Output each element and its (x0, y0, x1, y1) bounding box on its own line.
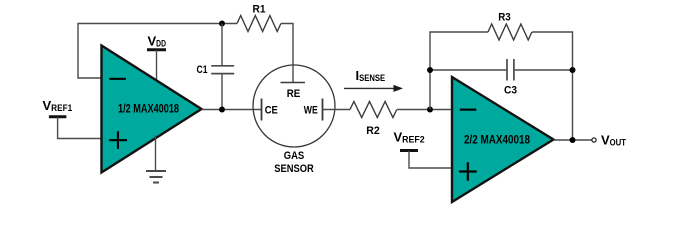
ISENSE arrow (344, 87, 394, 89)
op-amp U1 1/2 MAX40018 (102, 46, 202, 173)
capacitor C1 (221, 24, 223, 66)
capacitor C3 (430, 69, 506, 71)
svg-text:2/2 MAX40018: 2/2 MAX40018 (464, 134, 531, 146)
wire: VREF1 to U1 + input (58, 117, 102, 139)
resistor R1 (237, 16, 281, 32)
node: U2 inverting input junction (427, 107, 433, 113)
wire: R2 to U2 inverting input (397, 109, 452, 111)
svg-text:CE: CE (265, 105, 278, 117)
svg-text:C1: C1 (197, 64, 208, 76)
op-amp U2 2/2 MAX40018 (452, 77, 554, 202)
svg-text:SENSOR: SENSOR (274, 163, 314, 175)
gas sensor body (253, 65, 335, 147)
wire: U2 output (554, 139, 592, 141)
node: U1 output / C1 junction (219, 107, 225, 113)
svg-text:GAS: GAS (284, 150, 305, 162)
wire: VDD to U1 top (156, 50, 158, 82)
terminal: VOUT open circle (592, 138, 596, 142)
wire: feedback left riser (430, 32, 488, 110)
svg-text:R3: R3 (498, 12, 511, 24)
node: C3 left junction (427, 67, 433, 73)
wire: U1 inverting-input feedback up-left and along top to R1 (78, 24, 237, 79)
ground (155, 136, 157, 172)
wire: R3 to right riser down to output (532, 32, 573, 140)
svg-text:R2: R2 (366, 125, 380, 137)
node: C3 right junction (570, 67, 576, 73)
svg-text:R1: R1 (253, 4, 266, 16)
svg-text:WE: WE (304, 105, 318, 117)
WE electrode (322, 99, 324, 121)
node: junction of feedback, C1 and R1 (219, 21, 225, 27)
svg-text:1/2 MAX40018: 1/2 MAX40018 (118, 103, 179, 115)
RE electrode (281, 82, 306, 84)
resistor R2 (350, 102, 397, 118)
wire: WE to R2 (323, 109, 351, 111)
wire: U1 output to sensor CE (202, 109, 262, 111)
svg-text:RE: RE (287, 88, 301, 100)
wire: R1 right lead down to RE electrode (281, 24, 293, 83)
svg-text:C3: C3 (504, 85, 517, 97)
wire: VREF2 to U2 + input (409, 151, 452, 168)
CE electrode (261, 99, 263, 121)
node: output junction (570, 137, 576, 143)
resistor R3 (488, 24, 532, 40)
